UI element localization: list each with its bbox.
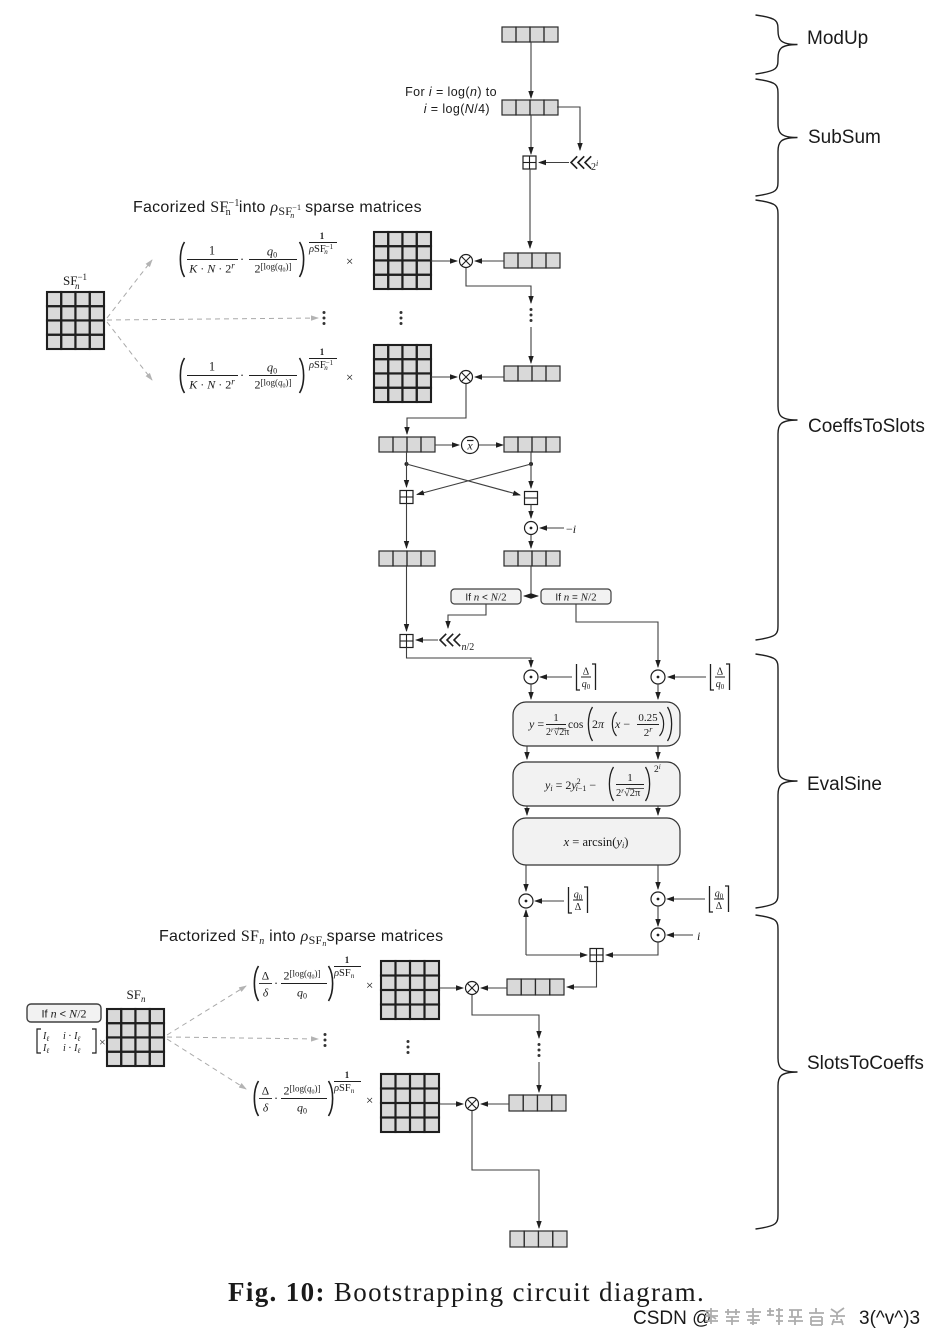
svg-text:2r√2π: 2r√2π xyxy=(546,726,569,738)
dashed arrow to sparse factor 2 xyxy=(107,322,152,380)
vdots between factors (right) xyxy=(400,311,403,325)
svg-text:·: · xyxy=(274,1091,278,1106)
ciphertext vector v1 (ModUp input) xyxy=(502,27,558,42)
svg-text:ρSFn: ρSFn xyxy=(333,968,355,980)
svg-text:Δ: Δ xyxy=(575,902,582,913)
svg-text:·: · xyxy=(240,252,244,267)
adder A4 (boxplus) xyxy=(590,949,603,962)
vector v5 xyxy=(379,437,435,452)
svg-text:If n < N/2: If n < N/2 xyxy=(41,1007,86,1021)
svg-text:Δ: Δ xyxy=(262,971,269,983)
condition box: If n < N/2 (SlotsToCoeffs) xyxy=(27,1004,101,1022)
label SF_n xyxy=(127,987,146,1004)
scale node D2 (odot) xyxy=(524,670,538,684)
svg-text:3(^v^)3: 3(^v^)3 xyxy=(859,1308,920,1329)
svg-text:Δ: Δ xyxy=(583,667,590,678)
wire v5 to x-bar xyxy=(435,444,459,446)
svg-text:1: 1 xyxy=(209,244,215,258)
eval box E2: y_i recursion xyxy=(513,762,680,806)
svg-text:1: 1 xyxy=(209,360,215,374)
wire D1 to v8 xyxy=(530,535,532,548)
svg-text:K · N · 2r: K · N · 2r xyxy=(188,261,235,276)
matrix factor M4 (4x4 grid) xyxy=(381,961,439,1019)
wire X4 down to v11 xyxy=(472,1111,539,1228)
brace SlotsToCoeffs xyxy=(756,915,798,1229)
svg-text:EvalSine: EvalSine xyxy=(807,774,882,795)
matrix SF_n (4x4 grid) xyxy=(107,1009,164,1066)
svg-text:SF−1n: SF−1n xyxy=(63,272,87,291)
wire junction L to adder A2 xyxy=(406,464,408,487)
wire v2 to adder A1 xyxy=(530,115,532,154)
svg-text:x = arcsin(yi): x = arcsin(yi) xyxy=(563,835,629,850)
wire E2 to E3 right xyxy=(657,806,659,815)
wire v5 down xyxy=(406,452,408,464)
svg-text:q0: q0 xyxy=(715,889,724,901)
svg-text:SlotsToCoeffs: SlotsToCoeffs xyxy=(807,1053,924,1074)
svg-text:If n < N/2: If n < N/2 xyxy=(465,592,506,604)
adder A1 (boxplus) xyxy=(523,156,536,169)
svg-text:ρSF−1n: ρSF−1n xyxy=(308,359,334,372)
wire E1 to E2 right xyxy=(657,746,659,759)
wire v4 to X2 xyxy=(475,376,504,378)
wire -i to D1 xyxy=(540,527,564,529)
selector matrix [I l, i I l; I l, i I l] x xyxy=(37,1029,106,1055)
cross wire junction R to adder A2 xyxy=(417,464,531,495)
svg-text:q0: q0 xyxy=(267,361,277,376)
svg-text:2[log(q0)]: 2[log(q0)] xyxy=(255,262,292,276)
matrix SF_n^-1 (4x4 grid) xyxy=(47,292,104,349)
condition box: If n < N/2 xyxy=(451,589,521,604)
mult node X3 (otimes) xyxy=(466,982,479,995)
vdots (left, SlotsToCoeffs) xyxy=(324,1033,327,1047)
svg-text:ModUp: ModUp xyxy=(807,28,868,49)
svg-text:CoeffsToSlots: CoeffsToSlots xyxy=(808,416,925,437)
mult node X4 (otimes) xyxy=(466,1098,479,1111)
wire D6 to adder A4 xyxy=(606,942,658,955)
svg-text:2[log(q0)]: 2[log(q0)] xyxy=(284,969,321,983)
wire X1 down to dots xyxy=(466,268,531,303)
svg-text:q0: q0 xyxy=(574,890,583,902)
wire E3 to D5 xyxy=(657,865,659,889)
brace CoeffsToSlots xyxy=(756,200,798,640)
svg-text:i · Iℓ: i · Iℓ xyxy=(63,1043,80,1055)
wire bracket to D4 xyxy=(535,900,564,902)
vdots on spine (SlotsToCoeffs) xyxy=(538,1043,541,1057)
svg-text:2i: 2i xyxy=(591,159,598,173)
wire D3 to box E1 xyxy=(657,684,659,699)
matrix factor M5 (4x4 grid) xyxy=(381,1074,439,1132)
wire x-bar to v6 xyxy=(479,444,503,446)
svg-text:q0: q0 xyxy=(297,986,307,1001)
round bracket Delta/q0 (right) xyxy=(711,664,730,691)
wire M4 to X3 xyxy=(440,987,463,989)
wire v9 to X3 xyxy=(481,987,507,989)
svg-text:yi = 2y2i−1 −: yi = 2y2i−1 − xyxy=(544,777,596,793)
svg-text:×: × xyxy=(366,978,373,993)
wire v8 down to If-split xyxy=(530,566,532,596)
wire D2 to box E1 xyxy=(530,684,532,699)
scale node D4 (odot) xyxy=(519,894,533,908)
label EvalSine xyxy=(807,774,882,795)
dashed arrow to sparse factor 1 xyxy=(107,260,152,318)
vector v7 xyxy=(379,551,435,566)
svg-text:CSDN @: CSDN @ xyxy=(633,1308,711,1329)
svg-text:×: × xyxy=(366,1093,373,1108)
wire v7 down to adder A3 xyxy=(406,566,408,631)
wire D4 branch to adder A4 xyxy=(526,954,587,956)
svg-text:q0: q0 xyxy=(716,679,725,691)
vdots on spine xyxy=(530,308,533,322)
wire v10 to X4 xyxy=(481,1103,509,1105)
vdots (right, SlotsToCoeffs) xyxy=(407,1040,410,1054)
subtractor S1 (boxminus) xyxy=(525,492,538,505)
svg-text:i = log(N/4): i = log(N/4) xyxy=(424,102,490,116)
dashed arrow to factor 2 (SlotsToCoeffs) xyxy=(167,1039,246,1089)
svg-text:SubSum: SubSum xyxy=(808,127,881,148)
svg-text:q0: q0 xyxy=(297,1101,307,1116)
svg-text:1: 1 xyxy=(345,955,350,965)
svg-text:Δ: Δ xyxy=(262,1086,269,1098)
adder A2 (boxplus) xyxy=(400,491,413,504)
svg-text:i: i xyxy=(697,929,700,943)
wire bracket to D2 xyxy=(540,676,572,678)
wire v3 to X1 xyxy=(475,260,504,262)
svg-text:0.25: 0.25 xyxy=(638,712,658,724)
round bracket q0/Delta (right) xyxy=(710,886,729,912)
svg-text:2[log(q0)]: 2[log(q0)] xyxy=(255,378,292,392)
svg-text:1: 1 xyxy=(345,1070,350,1080)
conjugate node x-bar xyxy=(462,437,479,454)
eval box E1: y = cos formula xyxy=(513,702,680,746)
dashed arrow to dots xyxy=(107,318,318,320)
svg-text:2[log(q0)]: 2[log(q0)] xyxy=(284,1084,321,1098)
brace ModUp xyxy=(756,15,798,74)
vector v9 xyxy=(507,979,564,995)
wire If< box to rotate n/2 xyxy=(448,604,486,628)
label SF_n^-1 xyxy=(63,272,87,291)
wire X2 down to v5 xyxy=(407,384,466,434)
wire bracket to D3 xyxy=(668,676,706,678)
svg-text:q0: q0 xyxy=(267,245,277,260)
svg-text:δ: δ xyxy=(263,1103,269,1115)
wire bracket to D5 xyxy=(667,898,705,900)
label SubSum xyxy=(808,127,881,148)
label ModUp xyxy=(807,28,868,49)
dashed arrow to dots (SlotsToCoeffs) xyxy=(167,1037,318,1039)
title: Facorized SF_n^-1 into rho sparse matrices xyxy=(133,198,422,220)
svg-text:q0: q0 xyxy=(582,679,591,691)
wire A2 to v7 xyxy=(406,504,408,549)
wire from below into D4 (up arrow) xyxy=(525,910,527,955)
svg-text:cos: cos xyxy=(568,719,584,731)
svg-text:Δ: Δ xyxy=(716,901,723,912)
wire junction R to subtractor S1 xyxy=(530,464,532,488)
matrix factor M1 (4x4 grid) xyxy=(374,232,431,289)
svg-text:y =: y = xyxy=(528,717,544,731)
eval box E3: x = arcsin(y_i) xyxy=(513,818,680,865)
wire v1 to v2 xyxy=(530,42,532,98)
svg-text:Factorized SFn into ρSFnsparse: Factorized SFn into ρSFnsparse matrices xyxy=(159,928,443,948)
svg-text:n/2: n/2 xyxy=(462,642,475,653)
scalar formula factor 1 (SlotsToCoeffs) xyxy=(254,955,373,1001)
junction dot right xyxy=(529,462,533,466)
mult node X1 (otimes) xyxy=(460,255,473,268)
svg-text:For i = log(n) to: For i = log(n) to xyxy=(405,85,497,99)
scalar formula factor 2 (SlotsToCoeffs) xyxy=(254,1070,373,1116)
svg-text:·: · xyxy=(240,368,244,383)
cross wire junction L to subtractor S1 xyxy=(407,464,521,495)
wire dots to v10 xyxy=(538,1062,540,1092)
watermark CSDN xyxy=(633,1308,920,1329)
wire M5 to X4 xyxy=(440,1103,463,1105)
wire split to If n=N/2 box xyxy=(531,595,538,597)
label i xyxy=(697,929,700,943)
round bracket Delta/q0 (left) xyxy=(577,664,596,691)
svg-text:ρSF−1n: ρSF−1n xyxy=(308,243,334,256)
label -i xyxy=(566,522,576,536)
vector v10 xyxy=(509,1095,566,1111)
vector v8 xyxy=(504,551,560,566)
ciphertext vector v2 (SubSum) xyxy=(502,100,558,115)
wire i to D6 xyxy=(667,934,693,936)
vector v3 xyxy=(504,253,560,268)
vector v6 xyxy=(504,437,560,452)
round bracket q0/Delta (left) xyxy=(569,887,588,913)
svg-text:1: 1 xyxy=(553,712,559,724)
wire dots to v4 xyxy=(530,327,532,363)
scale node D5 (odot) xyxy=(651,892,665,906)
svg-text:K · N · 2r: K · N · 2r xyxy=(188,377,235,392)
vdots between factors (left) xyxy=(323,311,326,325)
dashed arrow to factor 1 (SlotsToCoeffs) xyxy=(167,986,246,1035)
vector v4 xyxy=(504,366,560,381)
svg-text:Iℓ: Iℓ xyxy=(42,1043,49,1055)
svg-text:·: · xyxy=(274,976,278,991)
caption Fig.10 xyxy=(228,1277,705,1307)
svg-text:i · Iℓ: i · Iℓ xyxy=(63,1031,80,1043)
wire X3 down to dots xyxy=(472,995,539,1038)
wire A4 down to v9 xyxy=(567,962,597,988)
matrix factor M2 (4x4 grid) xyxy=(374,345,431,402)
svg-text:2π: 2π xyxy=(592,717,605,731)
title: Factorized SF_n into rho sparse matrices xyxy=(159,928,443,948)
svg-text:x −: x − xyxy=(614,717,630,731)
wire M2 to X2 xyxy=(431,376,457,378)
wire D5 to D6 xyxy=(657,906,659,926)
svg-text:Fig. 10: Bootstrapping circuit: Fig. 10: Bootstrapping circuit diagram. xyxy=(228,1277,705,1307)
scale node D3 (odot) xyxy=(651,670,665,684)
wire S1 to scale node D1 xyxy=(530,505,532,519)
mult node X2 (otimes) xyxy=(460,371,473,384)
wire M1 to X1 xyxy=(431,260,457,262)
loop label: For i = log(n) to i = log(N/4) xyxy=(405,85,497,116)
label SlotsToCoeffs xyxy=(807,1053,924,1074)
svg-text:1: 1 xyxy=(320,347,325,357)
wire v6 down xyxy=(530,452,532,464)
brace SubSum xyxy=(756,79,798,196)
condition box: If n = N/2 xyxy=(541,589,611,604)
label CoeffsToSlots xyxy=(808,416,925,437)
wire E1 to E2 left xyxy=(526,746,528,759)
wire A3 to scale D2 xyxy=(407,648,532,668)
wire v2 right to rotate xyxy=(557,107,580,150)
svg-text:Δ: Δ xyxy=(717,667,724,678)
wire adder A1 down to v3 xyxy=(529,169,531,248)
svg-text:×: × xyxy=(346,254,353,269)
svg-text:×: × xyxy=(346,370,353,385)
wire rotate n/2 to adder A3 xyxy=(416,639,438,641)
wire E3 to D4 xyxy=(525,865,527,891)
wire E2 to E3 left xyxy=(526,806,528,815)
vector v11 (output) xyxy=(510,1231,567,1247)
scalar formula factor 2 (CoeffsToSlots) xyxy=(180,347,353,393)
wire split to If n<N/2 box xyxy=(524,595,531,597)
svg-text:ρSFn: ρSFn xyxy=(333,1083,355,1095)
adder A3 (boxplus) xyxy=(400,635,413,648)
svg-text:Iℓ: Iℓ xyxy=(42,1031,49,1043)
scale node D1 (odot) xyxy=(525,522,538,535)
rotate symbol <<< 2^i xyxy=(571,156,598,173)
svg-text:δ: δ xyxy=(263,988,269,1000)
junction dot left xyxy=(405,462,409,466)
rotate symbol <<< n/2 xyxy=(440,634,474,653)
scale node D6 (odot) xyxy=(651,928,665,942)
svg-text:1: 1 xyxy=(627,772,633,784)
svg-text:If n = N/2: If n = N/2 xyxy=(555,592,596,604)
svg-text:×: × xyxy=(99,1035,106,1049)
wire If= box down to scale D3 xyxy=(576,604,658,667)
wire rotate to adder A1 xyxy=(539,162,569,164)
svg-text:SFn: SFn xyxy=(127,987,146,1004)
scalar formula factor 1 (CoeffsToSlots) xyxy=(180,231,353,277)
svg-text:1: 1 xyxy=(320,231,325,241)
svg-text:−i: −i xyxy=(566,522,576,536)
svg-text:Facorized SF−1ninto ρSF−1n spa: Facorized SF−1ninto ρSF−1n sparse matric… xyxy=(133,198,422,220)
brace EvalSine xyxy=(756,654,798,908)
